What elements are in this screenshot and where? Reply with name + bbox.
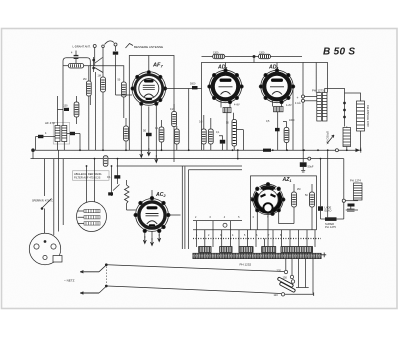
mains block (325, 217, 344, 221)
AF7 anode wire (165, 89, 202, 151)
arrow diag (327, 135, 334, 144)
trimmer cap (346, 204, 358, 212)
cap C5 (58, 108, 70, 111)
resistor R4 (121, 76, 126, 118)
wave switch S1 (93, 57, 103, 73)
svg-text:AF 473: AF 473 (45, 121, 55, 125)
coil block 3 (239, 247, 253, 253)
resistor R14 (284, 128, 289, 151)
trimmer circle (223, 223, 227, 227)
band drop wires (286, 259, 313, 294)
svg-text:4–8V: 4–8V (286, 104, 292, 107)
output transformer windings (303, 63, 329, 145)
selector circle 3 (284, 280, 295, 284)
svg-text:2 3 4 5 6 7: 2 3 4 5 6 7 (195, 216, 275, 219)
antenna loop (63, 58, 90, 93)
cap on bus (263, 149, 271, 152)
inner box edge (184, 167, 186, 250)
field coil (345, 93, 365, 150)
tube AZ1 (251, 183, 285, 216)
tube AD1 b (259, 69, 295, 104)
tube AD1 a (208, 69, 244, 104)
ground arrow a3 (155, 155, 158, 163)
svg-text:4 mÄ: 4 mÄ (295, 102, 301, 105)
svg-text:220: 220 (277, 269, 282, 273)
antenna terminal 3 (114, 43, 117, 51)
mains block feed (327, 150, 329, 217)
svg-text:BESSERE ANTENNE: BESSERE ANTENNE (134, 45, 163, 49)
tube AC2 (134, 196, 170, 232)
band end tick (321, 253, 326, 258)
cap C12 (108, 192, 113, 195)
electrolytic C9 (300, 150, 314, 172)
cap C6 (143, 129, 152, 137)
cap C4 (67, 132, 80, 150)
terminal left (31, 149, 37, 159)
junction wire (253, 57, 255, 63)
wire V2 (95, 72, 97, 150)
mains switch arm 2 (80, 285, 107, 294)
booster arc (105, 41, 115, 45)
AZ1 top wires (238, 150, 253, 198)
value labels (45, 51, 308, 197)
coil band (193, 253, 321, 259)
svg-text:100: 100 (64, 105, 69, 108)
ballast coil (354, 183, 363, 200)
AF7 shield box (129, 56, 174, 163)
resistor R6 (172, 104, 177, 127)
AZ1 box (251, 176, 317, 230)
T1 leads (58, 93, 91, 150)
B+ terminal (295, 96, 301, 105)
coil block 1 (199, 247, 211, 253)
AD1a cathode cluster (219, 100, 234, 151)
AF7 cathode wires (141, 106, 156, 157)
AD1 box (202, 63, 304, 151)
grid wire V1 (88, 66, 90, 76)
antenna coil L1 (63, 63, 94, 68)
AD1 pair top line (202, 56, 303, 58)
speaker plug wires (44, 150, 63, 235)
annotation text (73, 171, 110, 180)
svg-text:1 2 3 4 5 6 7 8: 1 2 3 4 5 6 7 8 (196, 234, 286, 237)
gramo circle (77, 202, 107, 232)
mains line 3 (285, 293, 314, 297)
rectifier out circle (342, 199, 358, 202)
ground arrow a2 (147, 148, 150, 156)
svg-text:+: + (297, 96, 299, 100)
svg-text:AF7: AF7 (152, 63, 163, 69)
svg-text:50: 50 (143, 129, 147, 133)
svg-text:B 50 S: B 50 S (323, 47, 355, 58)
svg-text:SPERRKR. 473 KC: SPERRKR. 473 KC (32, 200, 53, 203)
mains line 4 (296, 287, 309, 289)
resistor R13 (201, 115, 206, 150)
mains line 2 (107, 286, 281, 294)
ground arrow b2 (151, 238, 154, 246)
wire to AF7 grid (94, 66, 132, 95)
speaker plug (29, 233, 62, 264)
ground arrow b1 (143, 236, 146, 244)
speaker terminals (302, 95, 317, 102)
hum coil (343, 127, 351, 151)
coil block 5 (281, 247, 313, 253)
bank wires (197, 221, 316, 247)
antenna terminal 1 (93, 45, 96, 67)
IF transformer T1 windings (55, 126, 67, 142)
svg-text:1200: 1200 (259, 51, 265, 54)
AC2 anode wire (168, 214, 180, 216)
mains switch arm 1 (80, 264, 107, 273)
bus junction dots (79, 149, 361, 167)
bus A (B+) (33, 149, 359, 151)
svg-text:PH 1252: PH 1252 (240, 263, 252, 267)
bank bus upper (193, 220, 242, 222)
AC2 feed wires (112, 159, 118, 190)
resistor R1 (74, 96, 79, 124)
cap C11 (107, 175, 120, 179)
chassis line (117, 165, 242, 167)
resistor R8 (124, 118, 129, 150)
resistor R11 (232, 120, 243, 151)
svg-text:L-DRAHT ANT.: L-DRAHT ANT. (73, 45, 91, 49)
svg-text:1200: 1200 (213, 51, 219, 54)
svg-text:50uF: 50uF (308, 165, 314, 169)
svg-text:PH. 1274: PH. 1274 (350, 179, 361, 183)
resistor R7 (174, 126, 179, 150)
series cap C2 (74, 51, 79, 64)
bus B (36, 158, 344, 160)
svg-text:2M: 2M (83, 78, 86, 81)
plug switch (41, 199, 51, 234)
booster label lead (126, 44, 134, 49)
svg-text:PH. 1273: PH. 1273 (312, 89, 324, 93)
svg-text:5000: 5000 (190, 83, 196, 86)
selector circle 4 (274, 293, 285, 297)
cap C10 (318, 159, 332, 219)
svg-text:PH. 1275: PH. 1275 (325, 225, 336, 229)
nested box top (189, 170, 243, 249)
resistor R3 (101, 72, 106, 150)
coil block 4 (262, 247, 276, 253)
gramo wires up (87, 159, 95, 203)
svg-text:4–8V: 4–8V (234, 104, 240, 107)
ground arrow b3 (158, 234, 161, 242)
AZ1 bottom wires (257, 212, 294, 247)
svg-text:1000: 1000 (289, 119, 295, 122)
resistor R10 (259, 54, 271, 58)
svg-text:2M: 2M (297, 188, 300, 191)
AC2 bottom wires (145, 232, 159, 241)
antenna terminal 2 (102, 45, 105, 72)
svg-text:ELKO: ELKO (325, 209, 332, 213)
coil block 2 (220, 247, 232, 253)
T1 shield (53, 123, 69, 145)
selector circle 1 (277, 269, 288, 274)
AD1a top wire (225, 63, 227, 69)
resistor R16 (310, 184, 315, 230)
resistor zigzag R17 (125, 180, 137, 210)
coil bank ticks (193, 238, 321, 240)
svg-text:FELDSPULE 1000: FELDSPULE 1000 (366, 105, 370, 127)
mains line 1 (107, 265, 284, 272)
bank bus lower (193, 229, 317, 231)
AF7 top pin wire (148, 56, 150, 71)
svg-text:ABGLEICH DER BAND-: ABGLEICH DER BAND- (74, 172, 102, 176)
resistor R18 (103, 156, 108, 166)
ground arrow a1 (140, 150, 143, 158)
AD1b top wire (276, 63, 278, 69)
AD1b cathode cluster (273, 100, 287, 151)
svg-text:1M: 1M (98, 75, 101, 78)
switch S2 (112, 185, 120, 197)
svg-text:110: 110 (274, 293, 279, 297)
resistor R15 (292, 184, 297, 224)
svg-text:~ NETZ: ~ NETZ (64, 279, 75, 283)
resistor R5 (159, 120, 164, 150)
switch gang link (105, 267, 107, 285)
speaker lead (325, 89, 346, 127)
svg-text:FILTER AUF 475 KC/S: FILTER AUF 475 KC/S (74, 176, 101, 180)
AD1b anode wire (292, 89, 294, 151)
mains block label (325, 222, 336, 229)
resistor R12 (208, 118, 213, 150)
chassis box left edge (181, 166, 183, 249)
tube AF7 (131, 71, 167, 106)
junction dot (253, 55, 255, 57)
selector circle 2 (283, 275, 294, 279)
antenna coupling cap C1 (113, 52, 118, 96)
selector bar 1 (277, 277, 293, 288)
resistor R2 (86, 76, 91, 150)
cap C3 (36, 135, 56, 150)
selector bar 2 (279, 282, 295, 293)
AC2 top wire (151, 190, 153, 196)
resistor R9 (213, 54, 225, 58)
